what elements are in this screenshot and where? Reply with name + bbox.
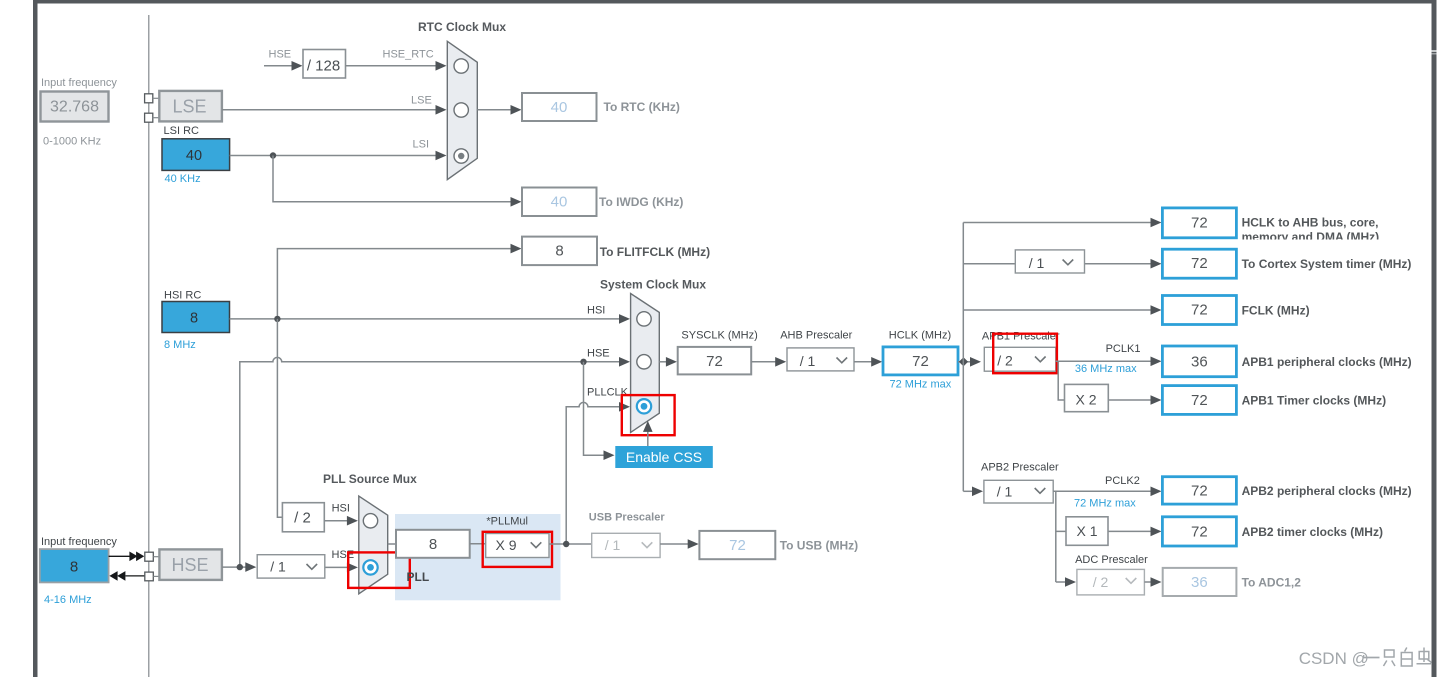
- wire LSI to IWDG: [273, 156, 522, 207]
- svg-text:To FLITFCLK (MHz): To FLITFCLK (MHz): [600, 245, 710, 259]
- red highlight APB1 prescaler: [993, 334, 1057, 374]
- wire HSI riser down to PLL /2: [277, 319, 282, 517]
- box APB1 timer value 72: [1162, 386, 1236, 415]
- dropdown PLLMul X9: [486, 534, 549, 558]
- svg-text:USB Prescaler: USB Prescaler: [589, 512, 666, 524]
- label AHB Prescaler: [780, 330, 852, 342]
- label 0-1000 KHz: [43, 136, 101, 148]
- svg-text:8 MHz: 8 MHz: [164, 339, 196, 351]
- wire PLLMul to USB junction: [549, 543, 592, 545]
- box LSE input 32.768: [41, 92, 109, 122]
- junction HSE riser: [237, 564, 243, 570]
- svg-text:APB1 Timer clocks (MHz): APB1 Timer clocks (MHz): [1242, 394, 1387, 408]
- svg-text:To USB (MHz): To USB (MHz): [780, 539, 858, 553]
- mux RTC Clock Mux: [447, 41, 477, 179]
- watermark glyph zhi: [1384, 650, 1396, 666]
- svg-text:To ADC1,2: To ADC1,2: [1242, 576, 1302, 590]
- label Input frequency (HSE): [41, 536, 117, 548]
- label Input frequency (LSE): [41, 77, 117, 89]
- label To FLITFCLK (MHz): [600, 245, 710, 259]
- svg-text:8: 8: [70, 559, 78, 576]
- label PCLK1: [1106, 343, 1141, 355]
- label HCLK to AHB bus two lines (second clipped): [1242, 216, 1380, 245]
- wire into ADC prescaler: [1056, 577, 1076, 587]
- label ADC Prescaler: [1075, 554, 1148, 566]
- wire FCLK row: [963, 305, 1161, 315]
- PLL background region: [395, 514, 561, 600]
- junction HSI branch: [274, 316, 280, 322]
- svg-text:/ 2: / 2: [1093, 574, 1109, 590]
- svg-text:36 MHz max: 36 MHz max: [1075, 363, 1137, 375]
- dropdown USB prescaler /1 disabled: [592, 533, 660, 557]
- box To IWDG value: [522, 188, 597, 217]
- box To FLITFCLK value: [522, 237, 597, 266]
- label HSE (pll input): [332, 549, 355, 561]
- wire APB2 peripheral row: [1053, 487, 1161, 497]
- label APB1 peripheral clocks (MHz): [1242, 355, 1412, 369]
- svg-text:To Cortex System timer (MHz): To Cortex System timer (MHz): [1242, 257, 1412, 271]
- svg-text:40: 40: [551, 194, 568, 211]
- wire LSI to RTC mux: [230, 151, 447, 161]
- oscillator HSE: [159, 549, 222, 580]
- label 36 MHz max: [1075, 363, 1137, 375]
- red highlight PLL HSE selection: [348, 552, 410, 588]
- label 72 MHz max (HCLK): [890, 379, 952, 391]
- wire cortex timer row: [963, 259, 1161, 269]
- red highlight PLLCLK selection: [622, 395, 675, 435]
- svg-text:HSE: HSE: [171, 555, 208, 575]
- box To USB value 72: [699, 531, 775, 559]
- wire APB2 feed: [963, 487, 983, 497]
- svg-text:72: 72: [912, 353, 929, 370]
- svg-text:36: 36: [1191, 353, 1208, 370]
- svg-text:/ 1: / 1: [605, 537, 621, 553]
- label APB1 Prescaler: [982, 331, 1060, 343]
- svg-text:8: 8: [555, 243, 563, 260]
- svg-text:72: 72: [1191, 523, 1208, 540]
- wire APB1 peripheral row: [1056, 357, 1162, 367]
- box HSE input 8: [40, 549, 109, 582]
- watermark glyph bai: [1401, 648, 1412, 667]
- multiplier X2: [1065, 384, 1109, 411]
- title RTC Clock Mux: [418, 20, 506, 34]
- svg-text:RTC Clock Mux: RTC Clock Mux: [418, 20, 506, 34]
- wire /2 to PLL mux: [324, 516, 358, 526]
- label APB2 Prescaler: [981, 462, 1059, 474]
- svg-text:HSE: HSE: [587, 348, 610, 360]
- svg-text:To IWDG (KHz): To IWDG (KHz): [599, 195, 683, 209]
- svg-text:PLL Source Mux: PLL Source Mux: [323, 472, 417, 486]
- svg-text:HSI: HSI: [587, 305, 605, 317]
- svg-text:LSI: LSI: [413, 139, 430, 151]
- dropdown APB1 prescaler /2: [984, 347, 1056, 371]
- wire HSE down to Enable CSS: [584, 362, 615, 460]
- svg-text:8: 8: [429, 536, 437, 553]
- junction diamond HCLK: [959, 357, 968, 366]
- wire /128 to RTC mux: [346, 61, 447, 71]
- svg-text:AHB Prescaler: AHB Prescaler: [780, 330, 852, 342]
- svg-text:LSI RC: LSI RC: [164, 125, 200, 137]
- wire APB2 timer branch: [1056, 491, 1162, 582]
- label HSI (sysmux input): [587, 305, 605, 317]
- svg-text:72: 72: [1191, 302, 1208, 319]
- wire HSE to prediv: [222, 562, 256, 572]
- MAIN-BUS-VERTICAL: [148, 15, 150, 677]
- svg-text:40: 40: [551, 99, 568, 116]
- wire HSI riser to FLITFCLK: [277, 244, 521, 319]
- svg-text:72 MHz max: 72 MHz max: [1074, 498, 1136, 510]
- svg-text:Input frequency: Input frequency: [41, 536, 117, 548]
- label HSE (sysmux input): [587, 348, 610, 360]
- svg-text:36: 36: [1191, 574, 1208, 591]
- multiplier X1: [1066, 517, 1108, 546]
- label HSE (rtc feeder): [269, 49, 292, 61]
- svg-text:ADC Prescaler: ADC Prescaler: [1075, 554, 1148, 566]
- dropdown APB2 prescaler /1: [984, 480, 1053, 503]
- label HSI RC: [164, 290, 201, 302]
- label PLL: [407, 570, 430, 584]
- label To USB (MHz): [780, 539, 858, 553]
- dropdown Cortex prescaler /1: [1015, 250, 1084, 273]
- box PLLSRC value 8: [396, 530, 470, 558]
- svg-text:System Clock Mux: System Clock Mux: [600, 278, 706, 292]
- svg-text:LSE: LSE: [411, 95, 432, 107]
- svg-text:PCLK2: PCLK2: [1105, 475, 1140, 487]
- wire HCLK bus vertical: [962, 223, 964, 492]
- svg-text:PLL: PLL: [407, 570, 430, 584]
- label PLLCLK (sysmux input): [587, 387, 629, 399]
- svg-text:CSDN @: CSDN @: [1299, 649, 1369, 668]
- svg-text:*PLLMul: *PLLMul: [486, 516, 528, 528]
- wire SYSCLK to AHB prescaler: [751, 357, 786, 367]
- label PCLK2: [1105, 475, 1140, 487]
- wire HSE to /128: [264, 61, 303, 71]
- svg-text:8: 8: [190, 311, 198, 327]
- label 8 MHz: [164, 339, 196, 351]
- wire PLLSRC to PLLMul: [470, 543, 486, 545]
- svg-text:HSI RC: HSI RC: [164, 290, 201, 302]
- svg-text:72: 72: [729, 537, 746, 554]
- box FCLK value 72: [1162, 296, 1236, 325]
- wire input to HSE in (double arrows): [109, 552, 145, 562]
- watermark CSDN @: [1299, 649, 1369, 668]
- svg-text:/ 2: / 2: [294, 510, 311, 527]
- svg-text:72: 72: [1191, 392, 1208, 409]
- box Cortex timer value 72: [1162, 249, 1236, 278]
- label FCLK (MHz): [1242, 304, 1310, 318]
- box HCLK value 72: [883, 347, 958, 375]
- wire APB1 timer branch: [1058, 361, 1161, 405]
- port squares HSE: [145, 552, 160, 581]
- wire AHB to HCLK: [854, 357, 882, 367]
- box APB1 peripheral value 36: [1162, 346, 1236, 377]
- mux PLL Source Mux: [359, 496, 388, 594]
- svg-text:FCLK (MHz): FCLK (MHz): [1242, 304, 1310, 318]
- svg-text:SYSCLK (MHz): SYSCLK (MHz): [681, 330, 757, 342]
- wire LSE to RTC mux: [222, 105, 447, 115]
- svg-text:40: 40: [186, 148, 202, 164]
- wire CSS arrow up into mux: [643, 421, 653, 446]
- svg-text:APB1 peripheral clocks (MHz): APB1 peripheral clocks (MHz): [1242, 355, 1412, 369]
- label *PLLMul: [486, 516, 528, 528]
- watermark glyph chong: [1417, 648, 1433, 664]
- dropdown ADC prescaler /2 disabled: [1077, 569, 1145, 595]
- box APB2 timer value 72: [1162, 517, 1236, 546]
- label APB2 timer clocks (MHz): [1242, 525, 1383, 539]
- label To IWDG (KHz): [599, 195, 683, 209]
- wire HSE to System Clock Mux with hop: [240, 357, 630, 567]
- junction Enable CSS branch: [580, 359, 586, 365]
- wire HCLK to APB junction: [958, 357, 981, 367]
- label LSI RC: [164, 125, 200, 137]
- title PLL Source Mux: [323, 472, 417, 486]
- label LSE (rtc input): [411, 95, 432, 107]
- svg-text:72 MHz max: 72 MHz max: [890, 379, 952, 391]
- red highlight PLLMul: [483, 532, 552, 567]
- dropdown AHB prescaler /1: [787, 348, 854, 371]
- svg-text:/ 1: / 1: [997, 484, 1013, 500]
- svg-text:/ 2: / 2: [997, 353, 1013, 369]
- dropdown HSE prediv /1: [257, 555, 325, 578]
- svg-text:To RTC (KHz): To RTC (KHz): [604, 100, 680, 114]
- label APB2 peripheral clocks (MHz): [1242, 484, 1412, 498]
- junction LSI branch: [270, 152, 276, 158]
- label 40 KHz: [165, 173, 201, 185]
- svg-text:APB2 peripheral clocks (MHz): APB2 peripheral clocks (MHz): [1242, 484, 1412, 498]
- label HSE_RTC: [383, 49, 434, 61]
- svg-text:72: 72: [1191, 255, 1208, 272]
- label To RTC (KHz): [604, 100, 680, 114]
- svg-text:/ 1: / 1: [270, 559, 286, 575]
- watermark glyph yi: [1364, 657, 1380, 659]
- wire HSI to System Clock Mux: [230, 314, 630, 324]
- svg-text:X 2: X 2: [1075, 392, 1096, 408]
- svg-text:HSI: HSI: [332, 503, 350, 515]
- svg-text:/ 1: / 1: [1029, 255, 1045, 271]
- wire PLLCLK to System Clock Mux with hop: [566, 402, 630, 544]
- wire HCLK to AHB row: [963, 218, 1161, 228]
- box HCLK to AHB value 72: [1162, 208, 1236, 238]
- title System Clock Mux: [600, 278, 706, 292]
- wire prediv to PLL mux: [325, 563, 358, 573]
- svg-text:PCLK1: PCLK1: [1106, 343, 1141, 355]
- svg-text:4-16 MHz: 4-16 MHz: [44, 594, 92, 606]
- label 72 MHz max (PCLK2): [1074, 498, 1136, 510]
- svg-text:72: 72: [706, 353, 723, 370]
- svg-text:X 1: X 1: [1076, 523, 1097, 539]
- svg-text:0-1000 KHz: 0-1000 KHz: [43, 136, 101, 148]
- button Enable CSS: [615, 446, 713, 468]
- svg-text:32.768: 32.768: [50, 99, 99, 116]
- svg-text:HSE: HSE: [269, 49, 292, 61]
- label HSI (pll input): [332, 503, 350, 515]
- label USB Prescaler: [589, 512, 666, 524]
- svg-text:LSE: LSE: [172, 97, 206, 117]
- box APB2 peripheral value 72: [1162, 477, 1236, 504]
- box To RTC value: [522, 93, 597, 121]
- svg-text:APB2 Prescaler: APB2 Prescaler: [981, 462, 1059, 474]
- wire USB prescaler to To USB box: [660, 539, 699, 549]
- svg-text:Enable CSS: Enable CSS: [626, 449, 702, 465]
- svg-text:HSE: HSE: [332, 549, 355, 561]
- svg-text:HSE_RTC: HSE_RTC: [383, 49, 434, 61]
- oscillator LSI 40: [162, 139, 230, 171]
- label APB1 Timer clocks (MHz): [1242, 394, 1387, 408]
- wire PLL mux to PLLSRC box: [388, 543, 396, 545]
- label 4-16 MHz: [44, 594, 92, 606]
- svg-text:72: 72: [1191, 482, 1208, 499]
- svg-text:72: 72: [1191, 215, 1208, 232]
- box To ADC value 36: [1163, 568, 1237, 596]
- port squares LSE: [145, 94, 160, 122]
- wire RTC mux to To RTC box: [477, 105, 521, 115]
- oscillator LSE: [159, 91, 222, 122]
- divider /128: [303, 50, 346, 79]
- svg-text:40 KHz: 40 KHz: [165, 173, 201, 185]
- svg-text:/ 128: / 128: [307, 58, 340, 75]
- label HCLK (MHz): [889, 330, 951, 342]
- svg-text:X 9: X 9: [495, 537, 516, 553]
- junction PLL output: [563, 541, 569, 547]
- label SYSCLK (MHz): [681, 330, 757, 342]
- mux System Clock Mux: [631, 294, 660, 433]
- svg-text:Input frequency: Input frequency: [41, 77, 117, 89]
- label LSI (rtc input): [413, 139, 430, 151]
- divider /2 (PLL HSI feed): [282, 503, 324, 532]
- svg-text:/ 1: / 1: [800, 353, 816, 369]
- box SYSCLK value 72: [678, 347, 752, 375]
- wire ADC prescaler to box: [1144, 577, 1161, 587]
- label To ADC1,2: [1242, 576, 1302, 590]
- wire sysmux to SYSCLK box: [659, 357, 677, 367]
- wire HSE out (double arrows left): [109, 571, 144, 581]
- label To Cortex System timer (MHz): [1242, 257, 1412, 271]
- oscillator HSI 8: [162, 302, 230, 333]
- svg-text:HCLK (MHz): HCLK (MHz): [889, 330, 951, 342]
- svg-text:HCLK to AHB bus, core,: HCLK to AHB bus, core,: [1242, 216, 1379, 230]
- svg-text:APB2 timer clocks (MHz): APB2 timer clocks (MHz): [1242, 525, 1383, 539]
